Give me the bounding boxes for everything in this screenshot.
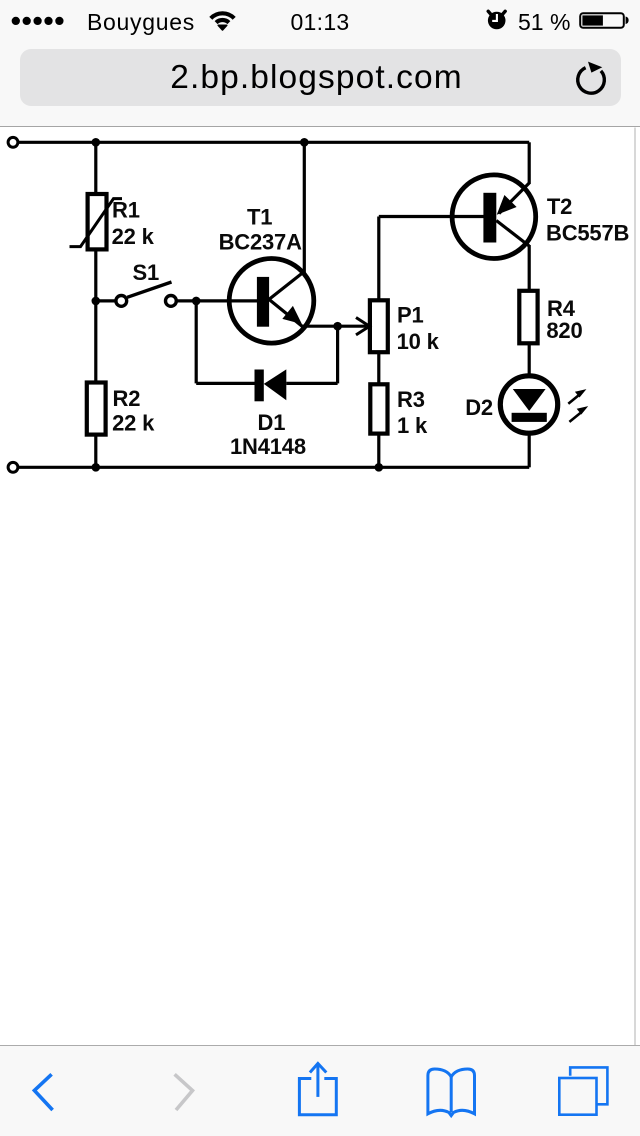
svg-text:1 k: 1 k bbox=[397, 413, 428, 438]
svg-text:D1: D1 bbox=[258, 410, 286, 435]
svg-text:820: 820 bbox=[546, 318, 582, 343]
svg-text:R1: R1 bbox=[112, 198, 140, 223]
svg-text:1N4148: 1N4148 bbox=[230, 434, 306, 459]
svg-text:BC237A: BC237A bbox=[219, 230, 302, 255]
svg-text:S1: S1 bbox=[133, 260, 160, 285]
svg-text:P1: P1 bbox=[397, 303, 424, 328]
svg-text:22 k: 22 k bbox=[112, 410, 155, 435]
svg-text:22 k: 22 k bbox=[112, 224, 155, 249]
svg-text:BC557B: BC557B bbox=[546, 220, 629, 245]
svg-text:R2: R2 bbox=[113, 386, 141, 411]
svg-text:R3: R3 bbox=[397, 387, 425, 412]
svg-text:D2: D2 bbox=[465, 395, 493, 420]
svg-text:T1: T1 bbox=[247, 205, 272, 230]
svg-text:10 k: 10 k bbox=[397, 329, 440, 354]
svg-text:T2: T2 bbox=[547, 194, 572, 219]
